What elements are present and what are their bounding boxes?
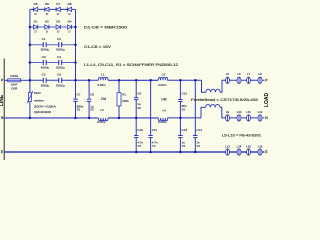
svg-text:CM: CM xyxy=(101,97,106,101)
junction node (89,80) xyxy=(88,79,91,82)
svg-text:L15: L15 xyxy=(246,144,251,148)
svg-text:Y2: Y2 xyxy=(152,144,156,148)
junction node (30,80) xyxy=(29,79,32,82)
ferrite bead L8 xyxy=(258,72,262,83)
wire P line B to L1 xyxy=(76,79,99,81)
svg-text:L5-L16 = FB-43-6301: L5-L16 = FB-43-6301 xyxy=(222,134,261,138)
svg-text:C1: C1 xyxy=(42,37,46,41)
ferrite bead L6 xyxy=(237,72,241,83)
svg-text:L4: L4 xyxy=(163,108,167,112)
svg-text:8200µ: 8200µ xyxy=(41,83,50,87)
terminal strip bar (LINE side) xyxy=(3,59,5,161)
junction node (89,118) xyxy=(88,117,91,120)
svg-text:R1: R1 xyxy=(122,92,126,96)
svg-text:C3: C3 xyxy=(42,55,46,59)
junction node (180,118) xyxy=(179,117,182,120)
svg-text:C9: C9 xyxy=(137,91,141,95)
svg-text:L16: L16 xyxy=(258,144,263,148)
svg-text:D1-D8 = MBR1500: D1-D8 = MBR1500 xyxy=(84,25,127,29)
svg-text:D2: D2 xyxy=(45,19,49,23)
junction node (136,80) xyxy=(135,79,138,82)
wire riser B (right side of capacitor/diode bank) xyxy=(75,9,77,80)
wire N line L2 to L4 xyxy=(108,117,158,119)
junction node (195,80) xyxy=(194,79,197,82)
svg-text:0.06m: 0.06m xyxy=(158,83,167,87)
svg-text:8200µ: 8200µ xyxy=(41,48,50,52)
wire capacitor row C5 C6 on P line xyxy=(30,79,76,81)
svg-text:L1: L1 xyxy=(101,72,105,76)
svg-text:C8: C8 xyxy=(90,92,94,96)
svg-text:FerriteBead = CST17/8.5/28-432: FerriteBead = CST17/8.5/28-432 xyxy=(191,98,258,102)
wire C11 riser from P across N to E xyxy=(150,80,152,135)
ferrite bead L14 xyxy=(237,144,242,155)
svg-text:LOAD: LOAD xyxy=(264,93,270,108)
wire riser A (left side of capacitor/diode bank) xyxy=(29,9,31,80)
capacitor C10 Y-cap N-E xyxy=(134,118,143,152)
svg-text:3.25m: 3.25m xyxy=(97,83,106,87)
wire bead row at y=118 xyxy=(226,117,265,119)
junction node (151,152) xyxy=(149,151,152,154)
svg-text:8200µ: 8200µ xyxy=(41,65,50,69)
capacitor C2 8200u xyxy=(56,37,65,52)
svg-text:L2: L2 xyxy=(100,108,104,112)
junction node (76,118) xyxy=(74,117,77,120)
svg-text:L10: L10 xyxy=(237,110,242,114)
wire N line left xyxy=(4,117,98,119)
junction node (119,80) xyxy=(118,79,121,82)
svg-text:FUSE: FUSE xyxy=(10,74,18,78)
svg-text:C1-C6 = 16V: C1-C6 = 16V xyxy=(84,45,112,49)
svg-text:L12: L12 xyxy=(258,110,263,114)
capacitor C12 X-cap xyxy=(178,80,187,118)
junction node (136,118) xyxy=(135,117,138,120)
junction node (76,27) xyxy=(74,26,77,29)
svg-text:L8: L8 xyxy=(258,72,262,76)
svg-text:8200µ: 8200µ xyxy=(56,48,65,52)
svg-text:L13: L13 xyxy=(225,144,230,148)
svg-text:LINE: LINE xyxy=(0,94,5,106)
ferrite bead L15 xyxy=(246,144,251,155)
svg-text:L3: L3 xyxy=(162,72,166,76)
junction node (76,45) xyxy=(74,43,77,46)
junction node (30,62) xyxy=(29,61,32,64)
capacitor C11 Y-cap P-E xyxy=(148,128,157,152)
svg-text:MOV: MOV xyxy=(34,91,41,95)
wire diode row D1-D4 xyxy=(30,26,76,28)
capacitor C6 8200u xyxy=(56,73,65,88)
wire diode row D5-D8 xyxy=(30,8,76,10)
inductor L2 3.25m (CM choke winding) xyxy=(97,108,108,124)
svg-text:Y2: Y2 xyxy=(182,144,186,148)
diode D5 xyxy=(34,2,38,16)
diode D1 xyxy=(34,19,38,33)
svg-text:C7: C7 xyxy=(77,92,81,96)
ferrite bead L11 xyxy=(246,110,251,121)
svg-text:D3: D3 xyxy=(56,19,60,23)
wire capacitor row C3 C4 xyxy=(30,62,76,64)
varistor MOV Q20K300 xyxy=(27,80,56,118)
ferrite bead L5 xyxy=(226,72,230,83)
junction node (180,152) xyxy=(179,151,182,154)
junction node (195,152) xyxy=(194,151,197,154)
svg-text:3.25m: 3.25m xyxy=(97,120,106,124)
diode D4 xyxy=(67,19,71,33)
svg-text:X1: X1 xyxy=(77,107,81,111)
svg-text:D7: D7 xyxy=(56,2,60,6)
junction node (180,80) xyxy=(179,79,182,82)
svg-text:D1: D1 xyxy=(34,19,38,23)
capacitor C7 X-cap xyxy=(73,80,83,118)
junction node (30,27) xyxy=(29,26,32,29)
wire P line L1 to L3 xyxy=(108,79,158,81)
inductor L4 0.06m (DM choke winding) xyxy=(158,108,168,124)
ferrite bead L16 xyxy=(258,144,263,155)
svg-text:Y2: Y2 xyxy=(196,144,200,148)
inductor L1 3.25m (CM choke winding) xyxy=(97,72,108,87)
wire bead row at y=152 xyxy=(4,151,264,153)
ferrite bead L9 xyxy=(226,110,230,121)
svg-text:L14: L14 xyxy=(237,144,242,148)
svg-text:D5: D5 xyxy=(34,2,38,6)
ferrite bead L13 xyxy=(225,144,230,155)
capacitor C1 8200u xyxy=(41,37,50,52)
svg-text:L11: L11 xyxy=(246,110,251,114)
junction node (119,118) xyxy=(118,117,121,120)
svg-text:C4: C4 xyxy=(57,55,61,59)
junction node (30,118) xyxy=(29,117,32,120)
svg-text:D8: D8 xyxy=(68,2,72,6)
svg-text:C14: C14 xyxy=(196,128,202,132)
capacitor C3 8200u xyxy=(41,55,50,70)
junction node (136,152) xyxy=(135,151,138,154)
diode D8 xyxy=(67,2,71,16)
ferrite bead L10 xyxy=(237,110,242,121)
wire P terminal to fuse xyxy=(4,79,7,81)
svg-text:L5: L5 xyxy=(226,72,230,76)
ferrite core CST top winding (P conductor) xyxy=(202,80,226,92)
wire bead row at y=80 xyxy=(226,79,265,81)
capacitor C4 8200u xyxy=(56,55,65,70)
svg-text:D6: D6 xyxy=(45,2,49,6)
svg-text:C13: C13 xyxy=(182,128,188,132)
svg-text:L7: L7 xyxy=(247,72,251,76)
capacitor C14 Y-cap P-E xyxy=(193,128,202,152)
ferrite core CST bottom winding (N conductor) xyxy=(201,104,226,117)
svg-text:X2: X2 xyxy=(137,106,141,110)
svg-text:X2: X2 xyxy=(90,107,94,111)
svg-text:300V~/15kA: 300V~/15kA xyxy=(34,104,56,108)
fuse F1 10AT CER xyxy=(8,74,21,90)
resistor R1 220k xyxy=(117,80,129,118)
svg-text:X2: X2 xyxy=(182,107,186,111)
diode D3 xyxy=(56,19,60,33)
diode D7 xyxy=(56,2,60,16)
junction node (30,45) xyxy=(29,43,32,46)
svg-text:0.06m: 0.06m xyxy=(158,120,167,124)
svg-text:Q20K300: Q20K300 xyxy=(34,110,51,114)
svg-text:C10: C10 xyxy=(137,128,143,132)
ferrite bead L12 xyxy=(258,110,263,121)
svg-text:varistor: varistor xyxy=(34,99,44,103)
diode D2 xyxy=(45,19,49,33)
svg-text:8200µ: 8200µ xyxy=(56,65,65,69)
svg-text:C2: C2 xyxy=(57,37,61,41)
capacitor C13 Y-cap N-E xyxy=(178,118,187,152)
wire N line L4 to CST corner xyxy=(167,117,201,119)
svg-text:L1-L4, C9-C11, R1 = SCHAFFNER: L1-L4, C9-C11, R1 = SCHAFFNER FN2000-12 xyxy=(84,63,178,67)
svg-text:L9: L9 xyxy=(226,110,230,114)
diode D6 xyxy=(45,2,49,16)
junction node (76,80) xyxy=(74,79,77,82)
junction node (151,80) xyxy=(149,79,152,82)
wire E line xyxy=(4,151,264,153)
wire C14 riser from P across N to E xyxy=(194,80,196,135)
wire capacitor row C1 C2 xyxy=(30,44,76,46)
wire P line L3 to CST corner xyxy=(167,79,201,81)
svg-text:C5: C5 xyxy=(42,73,46,77)
inductor L3 0.06m (DM choke winding) xyxy=(158,72,168,87)
svg-text:L6: L6 xyxy=(237,72,241,76)
svg-text:Y2: Y2 xyxy=(137,144,141,148)
svg-text:8200µ: 8200µ xyxy=(56,83,65,87)
capacitor C9 X-cap xyxy=(134,80,141,118)
svg-text:DM: DM xyxy=(161,97,166,101)
capacitor C8 X-cap xyxy=(87,80,94,118)
capacitor C5 8200u xyxy=(41,73,50,88)
svg-text:D4: D4 xyxy=(68,19,72,23)
svg-text:CER: CER xyxy=(11,87,18,91)
svg-text:C6: C6 xyxy=(57,73,61,77)
svg-text:C12: C12 xyxy=(182,91,188,95)
wire fuse to node A xyxy=(21,79,30,81)
junction node (76,62) xyxy=(74,61,77,64)
svg-text:220k: 220k xyxy=(122,99,129,103)
ferrite bead L7 xyxy=(247,72,251,83)
svg-text:C11: C11 xyxy=(152,128,158,132)
